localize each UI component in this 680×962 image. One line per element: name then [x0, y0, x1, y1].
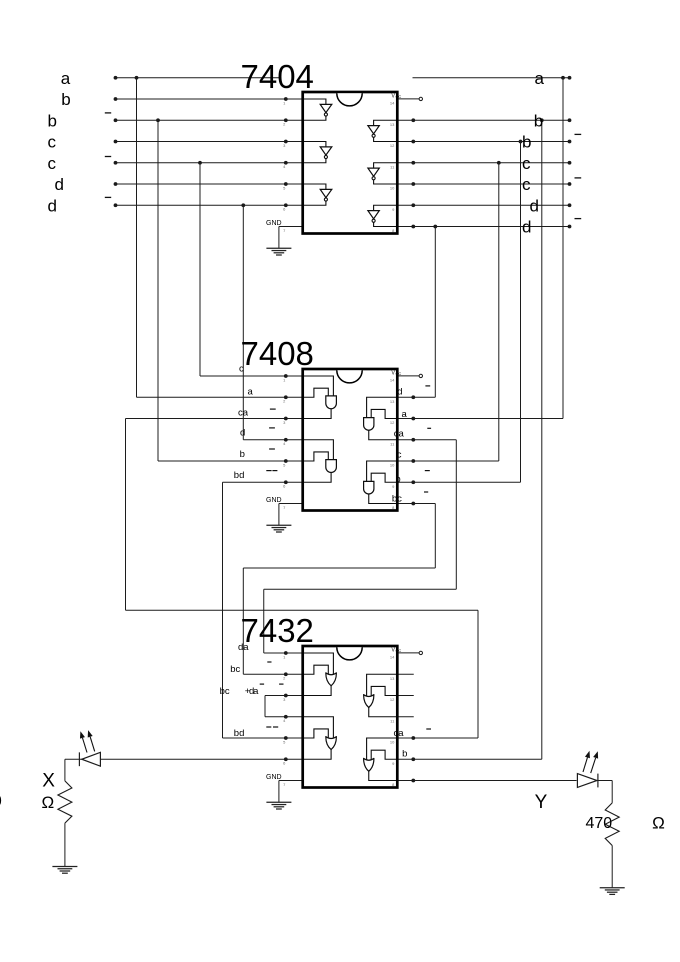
svg-text:CC: CC [396, 371, 402, 376]
svg-text:X: X [42, 771, 55, 792]
svg-text:Ω: Ω [652, 814, 665, 833]
svg-text:470: 470 [586, 815, 613, 832]
svg-text:GND: GND [266, 220, 282, 227]
svg-text:14: 14 [390, 378, 395, 383]
svg-text:GND: GND [266, 497, 282, 504]
svg-text:CC: CC [396, 648, 402, 653]
svg-text:+da: +da [245, 686, 259, 697]
svg-text:d: d [530, 196, 539, 215]
svg-text:b: b [48, 111, 57, 130]
svg-text:bc: bc [220, 686, 230, 697]
svg-text:GND: GND [266, 774, 282, 781]
svg-text:12: 12 [390, 143, 395, 148]
svg-text:d: d [55, 175, 64, 194]
svg-text:13: 13 [390, 122, 395, 127]
svg-text:12: 12 [390, 420, 395, 425]
svg-text:b: b [402, 749, 407, 760]
svg-text:7404: 7404 [241, 58, 314, 95]
svg-text:ca: ca [394, 429, 405, 440]
svg-text:7408: 7408 [241, 335, 314, 372]
svg-text:bc: bc [392, 494, 402, 505]
svg-text:ca: ca [238, 408, 249, 419]
svg-text:CC: CC [396, 94, 402, 99]
svg-text:b: b [534, 111, 543, 130]
svg-text:b: b [240, 449, 245, 460]
svg-text:a: a [61, 69, 71, 88]
svg-text:c: c [522, 175, 531, 194]
svg-text:b: b [61, 90, 70, 109]
svg-text:13: 13 [390, 676, 395, 681]
svg-text:a: a [248, 387, 254, 398]
svg-text:470: 470 [0, 793, 2, 810]
svg-text:a: a [402, 409, 408, 420]
svg-text:12: 12 [390, 697, 395, 702]
svg-text:d: d [48, 196, 57, 215]
svg-text:bc: bc [230, 664, 240, 675]
svg-text:10: 10 [390, 186, 395, 191]
svg-text:d: d [240, 428, 245, 439]
svg-text:13: 13 [390, 399, 395, 404]
svg-text:bd: bd [234, 728, 245, 739]
svg-text:14: 14 [390, 101, 395, 106]
svg-text:c: c [239, 364, 244, 375]
svg-text:c: c [397, 450, 402, 461]
svg-text:7432: 7432 [241, 612, 314, 649]
svg-text:da: da [238, 642, 249, 653]
svg-text:10: 10 [390, 740, 395, 745]
svg-text:b: b [395, 474, 400, 485]
svg-text:c: c [48, 154, 57, 173]
svg-text:b: b [522, 133, 531, 152]
svg-text:bd: bd [234, 470, 245, 481]
svg-text:Y: Y [535, 792, 548, 813]
svg-text:d: d [397, 387, 402, 398]
svg-text:Ω: Ω [42, 793, 55, 812]
svg-text:10: 10 [390, 463, 395, 468]
svg-text:14: 14 [390, 655, 395, 660]
svg-text:ca: ca [394, 728, 405, 739]
svg-text:c: c [522, 154, 531, 173]
svg-text:c: c [48, 133, 57, 152]
svg-text:d: d [522, 218, 531, 237]
svg-text:a: a [535, 69, 545, 88]
